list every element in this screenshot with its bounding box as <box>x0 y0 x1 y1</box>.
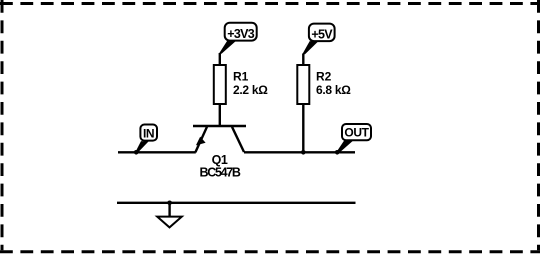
net label OUT <box>336 124 371 153</box>
ground <box>157 203 182 228</box>
svg-text:OUT: OUT <box>344 126 369 140</box>
junction dot R2/OUT <box>301 150 306 155</box>
resistor R1 <box>214 65 268 104</box>
wire R1 to Q1 base <box>219 104 221 126</box>
wire GND rail <box>117 202 356 204</box>
svg-text:6.8 kΩ: 6.8 kΩ <box>316 83 351 97</box>
svg-text:+3V3: +3V3 <box>227 27 254 41</box>
svg-text:R2: R2 <box>316 70 332 84</box>
svg-text:BC547B: BC547B <box>200 166 241 180</box>
svg-text:IN: IN <box>143 127 154 141</box>
junction dot GND <box>167 201 172 206</box>
junction dot OUT flag <box>335 150 340 155</box>
resistor R2 <box>297 65 351 104</box>
svg-text:2.2 kΩ: 2.2 kΩ <box>233 83 268 97</box>
power symbol +3V3 <box>219 23 257 54</box>
wire +5V to R2 <box>302 54 304 66</box>
junction dot IN <box>134 150 139 155</box>
wire OUT net (right horizontal) <box>244 151 355 153</box>
svg-text:R1: R1 <box>233 70 249 84</box>
power symbol +5V <box>302 24 334 55</box>
svg-text:+5V: +5V <box>311 27 333 41</box>
wire IN net (left horizontal) <box>118 151 196 153</box>
net label IN <box>135 125 157 153</box>
wire +3V3 to R1 <box>219 53 221 65</box>
wire R2 to output net <box>302 104 304 152</box>
transistor Q1 BC547B <box>193 126 246 180</box>
